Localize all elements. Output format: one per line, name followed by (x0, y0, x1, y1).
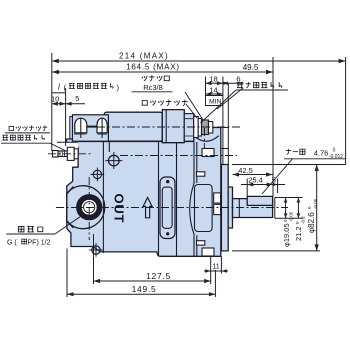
svg-text:φ82.6: φ82.6 (307, 212, 316, 233)
svg-text:-0.05: -0.05 (313, 198, 318, 209)
svg-text:4.76: 4.76 (314, 149, 329, 158)
svg-text:5: 5 (75, 94, 79, 103)
svg-text:10: 10 (51, 95, 59, 104)
svg-text:-0.2: -0.2 (301, 216, 306, 224)
svg-text:42.5: 42.5 (238, 166, 253, 175)
svg-text:l: l (58, 83, 60, 92)
svg-text:MIN: MIN (209, 99, 222, 106)
svg-text:21.2: 21.2 (294, 226, 303, 241)
svg-text:Rc3/8: Rc3/8 (143, 83, 163, 92)
svg-text:OUT: OUT (112, 194, 127, 224)
svg-text:25.4: 25.4 (248, 175, 263, 184)
svg-text:-0.05: -0.05 (289, 211, 294, 222)
svg-text:14: 14 (209, 86, 217, 95)
svg-text:11: 11 (212, 264, 219, 271)
svg-text:0: 0 (333, 148, 336, 154)
svg-text:G (: G ( (7, 240, 17, 247)
svg-text:164.5 (MAX): 164.5 (MAX) (126, 63, 180, 72)
svg-text:149.5: 149.5 (132, 284, 157, 294)
svg-text:φ19.05: φ19.05 (282, 223, 291, 247)
svg-text:214 (MAX): 214 (MAX) (119, 52, 169, 61)
svg-text:18: 18 (209, 75, 217, 84)
svg-text:127.5: 127.5 (146, 271, 171, 281)
svg-text:49.5: 49.5 (243, 63, 259, 72)
svg-text:PF) 1/2: PF) 1/2 (28, 240, 51, 247)
